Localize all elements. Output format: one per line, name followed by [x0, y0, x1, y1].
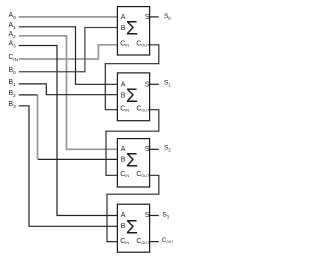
svg-text:Σ: Σ: [126, 150, 138, 172]
svg-text:OUT: OUT: [141, 109, 150, 113]
svg-text:0: 0: [13, 70, 16, 75]
svg-text:Σ: Σ: [126, 216, 138, 238]
svg-text:IN: IN: [125, 241, 129, 245]
svg-text:OUT: OUT: [166, 240, 173, 244]
svg-text:3: 3: [13, 104, 16, 109]
svg-text:S: S: [145, 14, 150, 21]
svg-text:2: 2: [13, 34, 16, 39]
svg-text:IN: IN: [125, 174, 129, 178]
svg-text:0: 0: [13, 15, 16, 20]
svg-text:S: S: [145, 212, 150, 219]
svg-text:OUT: OUT: [141, 241, 150, 245]
svg-text:IN: IN: [125, 109, 129, 113]
svg-text:OUT: OUT: [141, 44, 150, 48]
svg-text:3: 3: [13, 44, 16, 49]
svg-text:1: 1: [13, 25, 16, 30]
svg-text:2: 2: [13, 93, 16, 98]
svg-text:Σ: Σ: [126, 18, 138, 40]
svg-text:1: 1: [13, 82, 16, 87]
svg-text:IN: IN: [13, 57, 18, 62]
svg-text:Σ: Σ: [126, 85, 138, 107]
svg-text:S: S: [145, 82, 150, 89]
svg-text:IN: IN: [125, 44, 129, 48]
svg-text:OUT: OUT: [141, 174, 150, 178]
svg-text:S: S: [145, 146, 150, 153]
